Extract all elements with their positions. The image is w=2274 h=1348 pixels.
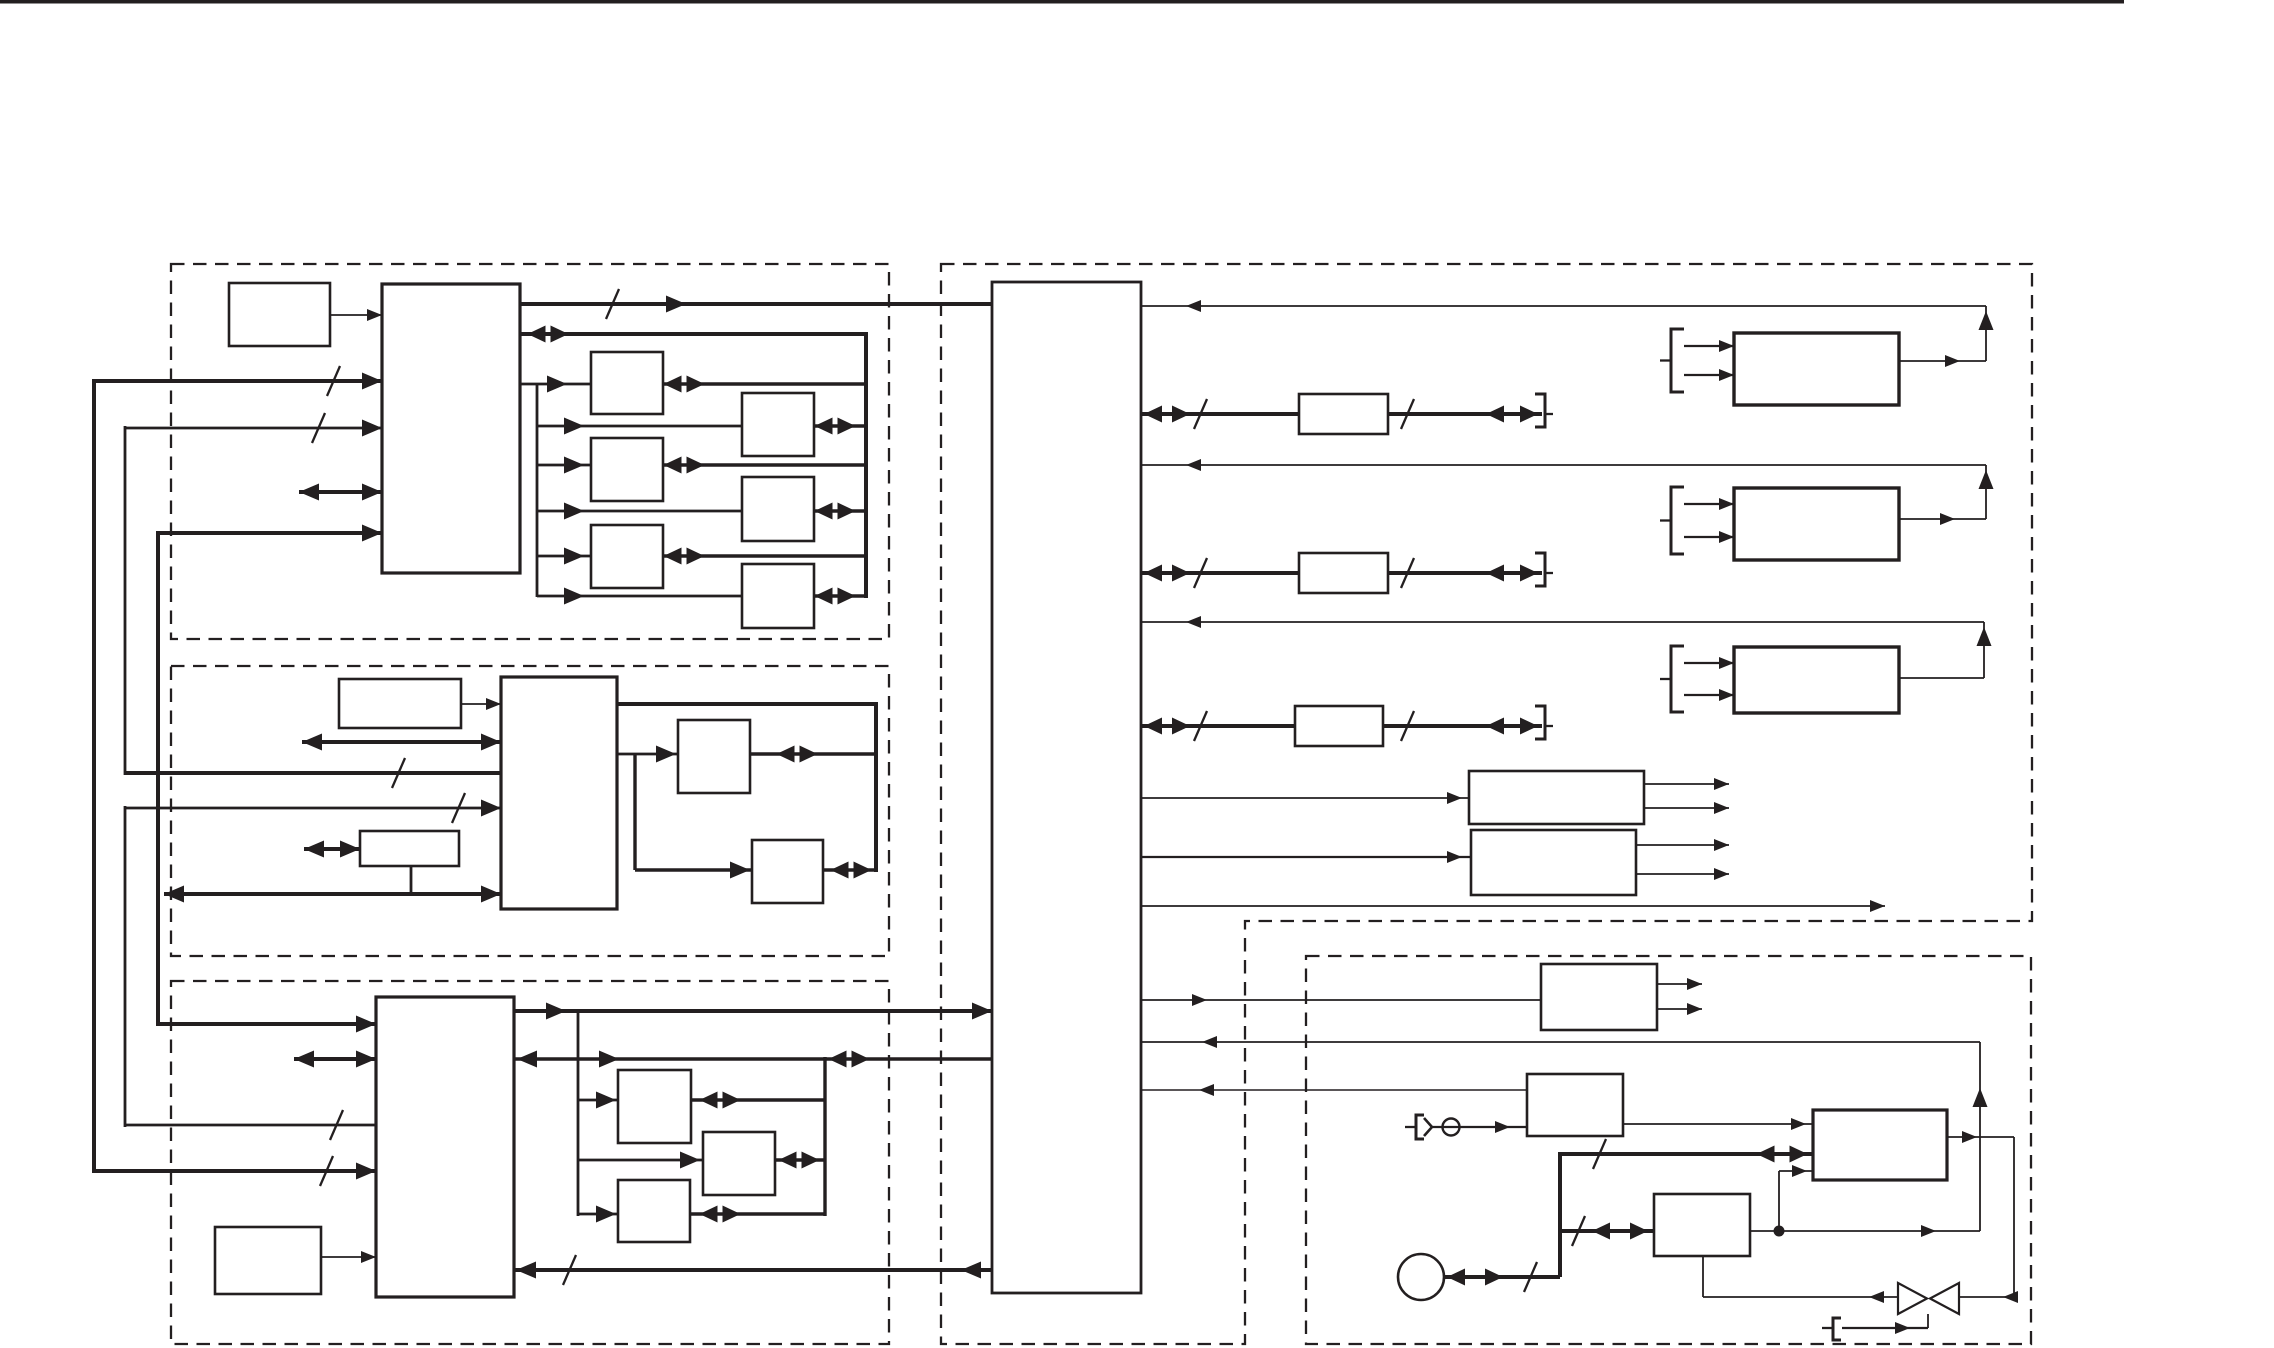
wire MCU3 bidirectional stub: [294, 1051, 376, 1068]
wire RAM2 bidirectional to bus: [663, 457, 866, 474]
wire motor2 feedback vertical with up arrow: [1979, 465, 1994, 519]
wire S2b down to shared line: [410, 866, 413, 894]
wire serial bus 2 connector side bidirectional with slash: [1388, 558, 1542, 588]
block S3 (oscillator 3): [215, 1227, 321, 1294]
wire motor2 phase input 1 with arrow: [1684, 498, 1734, 510]
dashed box: panel control section (bottom-left): [171, 981, 889, 1344]
top rule bar: [0, 0, 2124, 4]
wire codec branch bidirectional with slash: [1560, 1216, 1654, 1246]
block RAM4: [618, 1070, 691, 1143]
wire motor3 phase input 1 with arrow: [1684, 657, 1734, 669]
wire valve left side to codec with arrow: [1703, 1291, 1898, 1303]
wire S2b bidirectional stub: [304, 841, 360, 858]
wire MCU2 top bus to right bus: [617, 702, 876, 706]
wire vertical link B (x=125 upper): [124, 426, 127, 775]
wire ROM2 bidirectional to bus: [814, 503, 866, 520]
wire controller to MCU3 with slash and arrows: [514, 1255, 992, 1285]
block RAM3: [591, 525, 663, 588]
wire modem output vertical down: [2013, 1137, 2015, 1297]
wire branch to ROM6 with arrow: [578, 1152, 703, 1169]
junction node (codec output): [1774, 1226, 1785, 1237]
wire branch to ROM3 with arrow: [537, 588, 742, 605]
wire RAM3 bidirectional to bus: [663, 548, 866, 565]
wire line input to ring detector with arrow: [1432, 1121, 1527, 1133]
wire junction up into modem with arrow: [1779, 1165, 1813, 1231]
block ROM3: [742, 564, 814, 628]
wire long bidirectional MCU3 to controller: [514, 1051, 992, 1068]
block ROM1: [742, 393, 814, 456]
block S2b (clock module): [360, 831, 459, 866]
wire serial bus 3 connector side bidirectional with slash: [1383, 711, 1542, 741]
circle handset connector: [1398, 1254, 1444, 1300]
block RAM5: [618, 1180, 690, 1242]
circle of line input connector: [1443, 1119, 1460, 1136]
wire controller to sensor block 2 with arrow: [1141, 851, 1471, 863]
wire S3 to MCU3 with arrow: [321, 1251, 376, 1263]
connector bracket [ for motor 3: [1660, 646, 1684, 712]
wire S2 to MCU2 with arrow: [461, 698, 501, 710]
wire controller to relay block with arrow: [1141, 994, 1541, 1006]
wire RAM5 bidirectional to bus: [690, 1206, 825, 1223]
block RAM2: [591, 438, 663, 501]
wire MCU3 input from link C with arrow: [158, 1016, 376, 1033]
wire long bidirectional into MCU2: [164, 886, 501, 903]
connector bracket ] for serial bus 3: [1535, 706, 1553, 739]
wire controller to ring detector with arrow: [1141, 1084, 1527, 1096]
valve symbol (line transformer): [1898, 1283, 1959, 1314]
connector bracket [ for valve control: [1822, 1318, 1841, 1340]
wire RAM4 bidirectional to bus: [691, 1092, 825, 1109]
wire MCU2 input D with slash and arrow: [125, 793, 501, 823]
block motor driver M2: [1734, 488, 1899, 560]
bus vertical (scanner section): [864, 332, 868, 598]
wire ROM5 bidirectional to bus: [823, 862, 876, 879]
wire ROM4 bidirectional to bus: [750, 746, 876, 763]
wire MCU3 input from link D with slash: [125, 1110, 376, 1140]
wire branch to RAM2 with arrow: [537, 457, 591, 474]
wire serial bus 1 controller side bidirectional with slash: [1141, 399, 1299, 429]
connector bracket [ for motor 2: [1660, 487, 1684, 554]
wire branch to ROM1 with arrow: [537, 418, 742, 435]
wire S1 to MCU1 with arrow: [330, 309, 382, 321]
block ROM5: [752, 840, 823, 903]
block motor driver M1: [1734, 333, 1899, 405]
wire motor1 feedback vertical with up arrow: [1979, 306, 1994, 361]
wire branch to ROM2 with arrow: [537, 503, 742, 520]
wire MCU1 input C with arrow: [158, 525, 382, 542]
wire sensor2 output 1 with arrow: [1636, 839, 1729, 851]
wire ROM3 bidirectional to bus: [814, 588, 866, 605]
wire motor2 feedback to controller with arrow: [1141, 459, 1986, 471]
wire RAM1 bidirectional to bus: [663, 376, 866, 393]
wire vertical link D (x=125 lower): [124, 806, 127, 1127]
wire handset bidirectional with slash: [1444, 1262, 1560, 1292]
block U1 (system controller ASIC): [992, 282, 1141, 1293]
wire MCU1 memory bus bidirectional to right bus: [520, 326, 866, 343]
wire motor3 driver output with arrow: [1835, 672, 1984, 684]
wire MCU1 bidirectional stub: [299, 484, 382, 501]
wire motor1 feedback to controller with arrow: [1141, 300, 1986, 312]
block buffer B1: [1299, 394, 1388, 434]
block S2 (oscillator 2): [339, 679, 461, 728]
connector bracket [ for motor 1: [1660, 329, 1684, 392]
wire modem data bus bidirectional with slash: [1560, 1139, 1813, 1169]
wire branch to ROM5 with arrow: [635, 862, 752, 879]
wire MCU2 to ROM4 with arrow: [617, 746, 678, 763]
wire controller long output with arrow: [1141, 900, 1885, 912]
wire MCU1 input bus A (left, from panel MCU) with slash and arrow: [94, 366, 382, 396]
wire MCU3 input from link A with slash and arrow: [94, 1156, 376, 1186]
block MCU2 (image processor): [501, 677, 617, 909]
wire branch to RAM5 with arrow: [578, 1206, 618, 1223]
wire motor1 driver output with arrow: [1899, 355, 1986, 367]
chevron of line input connector: [1424, 1118, 1432, 1136]
bus vertical (panel section): [823, 1057, 826, 1216]
wire serial bus 3 controller side bidirectional with slash: [1141, 711, 1295, 741]
dashed outline: main controller board (right, L-shaped): [941, 264, 2032, 1344]
wire modem feedback vertical with up arrow: [1973, 1042, 1988, 1231]
wire MCU1 input B with slash and arrow: [125, 413, 382, 443]
wire modem status to controller with arrow: [1141, 1036, 1980, 1048]
wire ROM6 bidirectional to bus: [775, 1152, 825, 1169]
block modem: [1813, 1110, 1947, 1180]
wire MCU2 bidirectional stub: [302, 734, 501, 751]
wire MCU1 out to RAM1 with arrow: [520, 376, 591, 393]
block buffer B2: [1299, 553, 1388, 593]
block buffer B3: [1295, 706, 1383, 746]
wire sensor1 output 2 with arrow: [1644, 802, 1729, 814]
wire motor2 phase input 2 with arrow: [1684, 531, 1734, 543]
dashed box: scanner control section (top-left): [171, 264, 889, 639]
wire motor2 driver output with arrow: [1899, 513, 1986, 525]
wire relay output 1 with arrow: [1657, 978, 1702, 990]
block relay driver: [1541, 964, 1657, 1030]
block RAM1: [591, 352, 663, 414]
wire branch vertical (x=537): [536, 384, 539, 597]
dashed box: line interface section (bottom-right): [1306, 956, 2031, 1344]
wire MCU2 input bus with slash (from link B): [125, 758, 501, 788]
connector bracket ] for serial bus 1: [1535, 394, 1553, 427]
block ROM2: [742, 477, 814, 541]
block MCU1 (scanner MCU): [382, 284, 520, 573]
block S1 (oscillator): [229, 283, 330, 346]
wire sensor1 output 1 with arrow: [1644, 778, 1729, 790]
dashed box: memory/codec section (middle-left): [171, 666, 889, 956]
block MCU3 (panel MCU): [376, 997, 514, 1297]
wire codec bottom vertical: [1702, 1256, 1704, 1297]
wire motor3 phase input 2 with arrow: [1684, 689, 1734, 701]
wire motor1 phase input 1 with arrow: [1684, 340, 1734, 352]
wire codec output to junction: [1750, 1225, 1980, 1237]
block sensor interface 2: [1471, 830, 1636, 895]
wire controller to sensor block 1 with arrow: [1141, 792, 1469, 804]
bus vertical (line section): [1558, 1152, 1562, 1277]
block ROM4: [678, 720, 750, 793]
wire vertical link C (x=158): [156, 531, 160, 1026]
wire modem output right: [1947, 1131, 2014, 1143]
bus vertical (memory section): [874, 702, 878, 872]
wire ring detector to modem with arrow: [1623, 1118, 1813, 1130]
wire sensor2 output 2 with arrow: [1636, 868, 1729, 880]
wire valve control stub: [1842, 1314, 1928, 1334]
wire MCU3 to system controller with arrows: [514, 1003, 992, 1020]
wire branch to RAM4 with arrow: [578, 1092, 618, 1109]
wire motor3 feedback to controller with arrow: [1141, 616, 1984, 628]
wire branch vertical (x=635): [633, 754, 636, 870]
block ROM6: [703, 1132, 775, 1195]
wire ROM1 bidirectional to bus: [814, 418, 866, 435]
block ring detector: [1527, 1074, 1623, 1136]
wire relay output 2 with arrow: [1657, 1003, 1702, 1015]
wire serial bus 1 connector side bidirectional with slash: [1388, 399, 1542, 429]
wire branch vertical (x=578): [577, 1011, 580, 1216]
connector bracket [ for line input: [1405, 1115, 1424, 1139]
connector bracket ] for serial bus 2: [1535, 553, 1553, 586]
wire serial bus 2 controller side bidirectional with slash: [1141, 558, 1299, 588]
block sensor interface 1: [1469, 771, 1644, 824]
block codec (NCU): [1654, 1194, 1750, 1256]
wire into hybrid valve right side with arrow: [1959, 1291, 2018, 1303]
block motor driver M3: [1734, 647, 1899, 713]
wire motor3 feedback vertical with up arrow: [1977, 622, 1992, 678]
wire branch to RAM3 with arrow: [537, 548, 591, 565]
wire MCU1 to system controller (bus) with slash and arrow: [520, 289, 992, 319]
wire vertical link A (x=94): [92, 379, 96, 1173]
wire motor1 phase input 2 with arrow: [1684, 369, 1734, 381]
